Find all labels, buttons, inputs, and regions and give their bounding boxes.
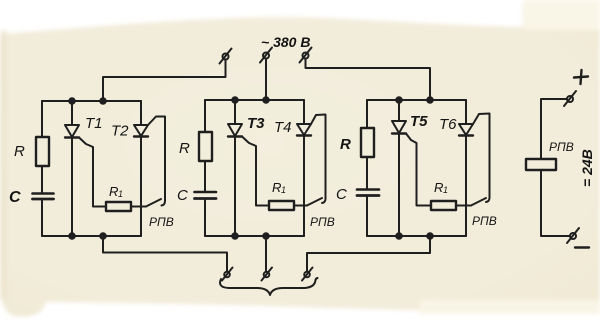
wire T5 gate (406, 134, 431, 206)
svg-text:C: C (9, 189, 21, 206)
svg-text:РПВ: РПВ (472, 214, 497, 228)
wire T6 cathode (465, 136, 467, 237)
wire T1 anode (71, 101, 73, 125)
terminal phase C (303, 53, 309, 59)
svg-text:РПВ: РПВ (549, 140, 574, 154)
node block2 output junction (263, 233, 269, 239)
svg-text:Т3: Т3 (247, 115, 265, 132)
terminal output 2 (264, 272, 270, 278)
terminal phase B (263, 53, 269, 59)
resistor R1 (block1) (106, 202, 131, 211)
svg-text:Т2: Т2 (111, 123, 129, 140)
wire coil to minus (541, 170, 570, 236)
wire T4 cathode (303, 136, 305, 237)
svg-text:~ 380 В: ~ 380 В (261, 34, 310, 50)
wire R1 to contact (block2) (294, 205, 307, 207)
brace outputs (220, 278, 318, 295)
label R1 (block1) (109, 184, 123, 199)
wire T2 gate to contact (148, 117, 165, 206)
contact РПВ (block1) (146, 199, 161, 207)
wire T3 gate (242, 137, 269, 206)
wire block3 left branch upper (366, 100, 368, 128)
thyristor T3 (228, 124, 242, 136)
svg-text:1: 1 (443, 185, 448, 195)
thyristor T2 (134, 125, 148, 136)
wire block1 left branch lower (41, 199, 43, 236)
svg-text:C: C (336, 186, 347, 203)
wire block2 left branch lower (204, 199, 206, 237)
node block2 T3 cathode junction (232, 233, 238, 239)
wire plus to coil (541, 99, 567, 159)
wire T3 cathode (234, 137, 236, 237)
plus terminal (574, 77, 588, 78)
wire phase A to block1 (103, 60, 226, 102)
capacitor C (block2) (195, 191, 217, 194)
node block1 T1 cathode junction (69, 233, 75, 239)
wire R to C (block1) (41, 166, 43, 194)
svg-text:Т5: Т5 (410, 113, 428, 130)
minus terminal (570, 233, 576, 239)
label T3 (247, 115, 265, 132)
label ~380V (261, 34, 310, 50)
terminal output 1 (224, 272, 230, 278)
node block2 T3 anode junction (232, 97, 238, 103)
wire block3 top bus (367, 99, 466, 101)
wire block3 left branch lower (366, 196, 368, 237)
label RPV coil (549, 140, 574, 154)
svg-text:R: R (109, 184, 118, 199)
label C (block1) (9, 189, 21, 206)
label RPV contact (block2) (310, 215, 335, 229)
svg-text:R: R (340, 136, 351, 153)
node block3 T5 cathode junction (396, 233, 402, 239)
thyristor T1 (65, 125, 79, 137)
wire T5 cathode (398, 134, 400, 237)
relay coil РПВ (526, 159, 556, 170)
thyristor T4 (297, 124, 311, 135)
label C (block2) (177, 187, 188, 204)
label T1 (85, 115, 103, 132)
wire T5 anode (398, 100, 400, 121)
node block1 feed junction (100, 98, 106, 104)
svg-text:R: R (434, 180, 443, 195)
label R1 (block2) (272, 180, 286, 195)
svg-text:R: R (14, 143, 25, 160)
wire block3 bottom bus (367, 235, 466, 237)
wire R1 to contact (block1) (131, 206, 146, 208)
svg-text:РПВ: РПВ (310, 215, 335, 229)
svg-text:1: 1 (281, 185, 286, 195)
svg-text:1: 1 (118, 189, 123, 199)
svg-text:РПВ: РПВ (149, 215, 174, 229)
wire block1 top bus (42, 100, 141, 102)
label RPV contact (block1) (149, 215, 174, 229)
thyristor T5 (392, 121, 406, 133)
label R (block2) (179, 140, 190, 157)
svg-text:= 24В: = 24В (579, 149, 595, 187)
label T5 (410, 113, 428, 130)
label T4 (274, 119, 292, 136)
wire phase C to block3 (306, 59, 431, 101)
node block2 feed junction (263, 97, 269, 103)
label T2 (111, 123, 129, 140)
wire output 2 (265, 236, 267, 272)
capacitor C (block3) (357, 188, 379, 191)
label R1 (block3) (434, 180, 448, 195)
node block1 output junction (100, 233, 106, 239)
wire R1 to contact (block3) (456, 205, 471, 207)
resistor R1 (block2) (269, 201, 294, 210)
thyristor T6 (459, 124, 473, 135)
contact РПВ (block3) (471, 198, 486, 206)
wire phase B to block2 (265, 59, 267, 101)
label R (block3) (340, 136, 351, 153)
wire T1 cathode (71, 138, 73, 237)
svg-text:Т4: Т4 (274, 119, 292, 136)
wire T6 anode branch (465, 100, 467, 124)
label R (block1) (14, 143, 25, 160)
svg-text:R: R (272, 180, 281, 195)
wire T2 anode branch (140, 101, 142, 125)
resistor R (block1) (36, 137, 49, 166)
wire output 3 (307, 236, 430, 272)
terminal output 3 (304, 272, 310, 278)
label RPV contact (block3) (472, 214, 497, 228)
label C (block3) (336, 186, 347, 203)
label =24V (579, 149, 595, 187)
capacitor C (block1) (33, 192, 54, 195)
svg-text:R: R (179, 140, 190, 157)
svg-text:Т1: Т1 (85, 115, 103, 132)
node block1 T1 anode junction (69, 98, 75, 104)
wire T1 gate (79, 138, 106, 207)
contact РПВ (block2) (307, 198, 322, 206)
wire block1 bottom bus (42, 235, 141, 237)
wire T4 gate to contact (311, 115, 326, 204)
wire R to C (block3) (366, 157, 368, 190)
wire block1 left branch upper (41, 101, 43, 137)
wire output 1 (103, 236, 227, 272)
label T6 (439, 116, 457, 133)
wire block2 left branch upper (204, 100, 206, 132)
wire block2 bottom bus (205, 235, 304, 237)
wire T2 cathode (140, 137, 142, 237)
wire T6 gate to contact (473, 114, 490, 203)
terminal phase A (223, 54, 229, 60)
resistor R (block2) (199, 132, 212, 161)
svg-text:Т6: Т6 (439, 116, 457, 133)
wire R to C (block2) (204, 161, 206, 192)
node block3 feed junction (427, 97, 433, 103)
wire T3 anode (234, 100, 236, 124)
svg-text:C: C (177, 187, 188, 204)
wire T4 anode branch (303, 100, 305, 124)
resistor R (block3) (361, 128, 374, 157)
resistor R1 (block3) (431, 201, 456, 210)
wire block2 top bus (205, 99, 304, 101)
node block3 T5 anode junction (396, 97, 402, 103)
node block3 output junction (427, 233, 433, 239)
